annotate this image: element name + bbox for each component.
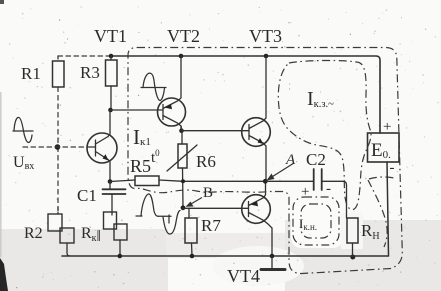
svg-text:VT2: VT2 bbox=[167, 26, 200, 46]
ground VT4 bbox=[261, 256, 285, 270]
node R6 R5 crossing bbox=[181, 179, 185, 183]
background shading bbox=[0, 196, 441, 291]
battery E0 bbox=[368, 133, 400, 256]
svg-text:+: + bbox=[383, 119, 391, 135]
svg-text:VT4: VT4 bbox=[227, 266, 260, 286]
wire VT3 base bbox=[182, 130, 250, 132]
svg-text:VT3: VT3 bbox=[249, 26, 282, 46]
node top VT2 bbox=[179, 54, 184, 59]
transistor VT3 bbox=[242, 56, 271, 181]
node rail Re bbox=[118, 254, 123, 259]
svg-text:R5: R5 bbox=[130, 156, 151, 176]
wire R1 to input node degraded bbox=[57, 87, 59, 147]
arrow to node B bbox=[186, 198, 203, 207]
waveform node B small bbox=[163, 211, 180, 235]
wire VT2 base bbox=[111, 109, 164, 111]
svg-text:+: + bbox=[301, 184, 309, 200]
page edge black wedge bbox=[0, 258, 8, 291]
waveform node B large bbox=[136, 194, 171, 223]
dash-dot boundaries bbox=[128, 48, 402, 274]
svg-text:R2: R2 bbox=[24, 225, 43, 242]
svg-text:Iк1: Iк1 bbox=[133, 125, 151, 149]
node VT2 emitter / VT3 base bbox=[179, 128, 184, 133]
arrow to node A bbox=[267, 163, 295, 181]
boundary strand to right edge bbox=[369, 177, 394, 179]
svg-text:R7: R7 bbox=[201, 216, 221, 235]
node VT1 emitter bbox=[108, 179, 113, 184]
svg-text:Iк.з.~: Iк.з.~ bbox=[307, 88, 334, 110]
resistor R2 doubled bbox=[48, 207, 74, 256]
node A bbox=[263, 179, 268, 184]
capacitor C1 bbox=[103, 182, 126, 216]
node B bbox=[181, 205, 186, 210]
wire input node to R2 degraded bbox=[57, 147, 59, 214]
resistor R5 bbox=[110, 176, 265, 186]
node R3 bottom / VT1 collector / VT2 base bbox=[108, 108, 113, 113]
boundary amplifier block bbox=[128, 48, 402, 274]
node top R3 bbox=[109, 54, 114, 59]
node rail VT4 bbox=[270, 254, 275, 259]
svg-text:R1: R1 bbox=[21, 64, 41, 83]
node rail R7 bbox=[190, 254, 195, 259]
svg-text:E0.: E0. bbox=[371, 140, 391, 161]
transistor VT1 bbox=[87, 110, 117, 182]
node top VT3 bbox=[264, 54, 269, 59]
wire node B to VT4 base bbox=[183, 207, 249, 209]
svg-text:B: B bbox=[203, 185, 213, 201]
node RH bottom bbox=[350, 255, 355, 260]
thermistor R6 bbox=[167, 126, 197, 208]
svg-text:-: - bbox=[390, 160, 395, 176]
transistor VT2 bbox=[158, 56, 186, 131]
svg-text:A: A bbox=[285, 152, 296, 168]
waveform input bbox=[13, 117, 33, 142]
wire top rail bbox=[111, 56, 380, 133]
svg-text:R6: R6 bbox=[196, 152, 216, 171]
left page edge streak bbox=[0, 92, 2, 257]
svg-text:Uвх: Uвх bbox=[13, 154, 34, 172]
node input bbox=[55, 144, 61, 150]
resistor R1 bbox=[53, 56, 65, 87]
boundary loop Ikn outer bbox=[293, 197, 339, 245]
waveform VT2 bbox=[141, 73, 166, 100]
resistor R3 bbox=[106, 56, 118, 110]
capacitor C2 bbox=[265, 169, 346, 218]
svg-text:C1: C1 bbox=[77, 186, 97, 205]
wire input to VT1 base degraded bbox=[23, 146, 88, 148]
resistor RH bbox=[347, 218, 358, 257]
signal waveforms bbox=[13, 73, 180, 234]
boundary loop Ikn inner bbox=[301, 204, 331, 238]
svg-text:R3: R3 bbox=[80, 63, 100, 82]
corner speck bbox=[0, 0, 4, 4]
svg-text:VT1: VT1 bbox=[94, 26, 127, 46]
wire top rail left degraded bbox=[58, 55, 111, 57]
boundary loop Ikz bbox=[278, 60, 371, 209]
svg-text:-: - bbox=[326, 181, 331, 197]
resistor R7 bbox=[185, 208, 197, 256]
svg-text:C2: C2 bbox=[306, 150, 326, 169]
resistor Re doubled bbox=[104, 212, 128, 256]
svg-text:t0: t0 bbox=[151, 148, 160, 166]
transistor VT4 bbox=[242, 181, 272, 256]
boundary strand right of RH bbox=[368, 180, 387, 247]
wire bottom rail bbox=[62, 255, 389, 257]
